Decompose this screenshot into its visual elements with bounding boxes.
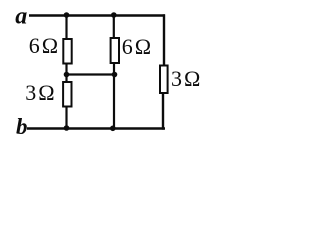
wire: middle branch upper stub bbox=[113, 15, 115, 39]
wire: top rail from a to right corner bbox=[29, 14, 165, 16]
junction: middle tie / left branch bbox=[64, 72, 70, 78]
svg-text:3Ω: 3Ω bbox=[25, 80, 54, 105]
junction: top rail / middle branch bbox=[111, 12, 117, 18]
junction: middle tie / middle branch bbox=[112, 72, 118, 78]
wire: right branch upper run bbox=[163, 14, 165, 65]
svg-text:a: a bbox=[15, 3, 27, 29]
wire: left branch upper stub bbox=[65, 15, 67, 40]
junction: bottom rail / middle branch bbox=[110, 126, 116, 132]
resistor 6ohm left (box) bbox=[63, 39, 71, 64]
svg-text:3Ω: 3Ω bbox=[171, 66, 200, 91]
svg-text:6Ω: 6Ω bbox=[122, 34, 151, 59]
resistor 3ohm right (box) bbox=[160, 66, 168, 94]
svg-text:b: b bbox=[16, 114, 28, 139]
junction: bottom rail / left branch bbox=[64, 125, 70, 131]
svg-text:6Ω: 6Ω bbox=[29, 33, 58, 58]
wire: right branch lower run bbox=[162, 93, 164, 130]
wire: left branch between resistors bbox=[65, 64, 67, 83]
wire: middle branch lower run to bottom rail bbox=[113, 63, 115, 129]
junction: top rail / left branch bbox=[64, 12, 70, 18]
wire: middle tie between left and middle branches bbox=[66, 73, 116, 75]
wire: left branch lower stub bbox=[65, 107, 67, 129]
wire: bottom rail from b to right corner bbox=[27, 127, 165, 129]
resistor 3ohm left (box) bbox=[63, 82, 71, 107]
resistor 6ohm middle (box) bbox=[111, 38, 119, 63]
